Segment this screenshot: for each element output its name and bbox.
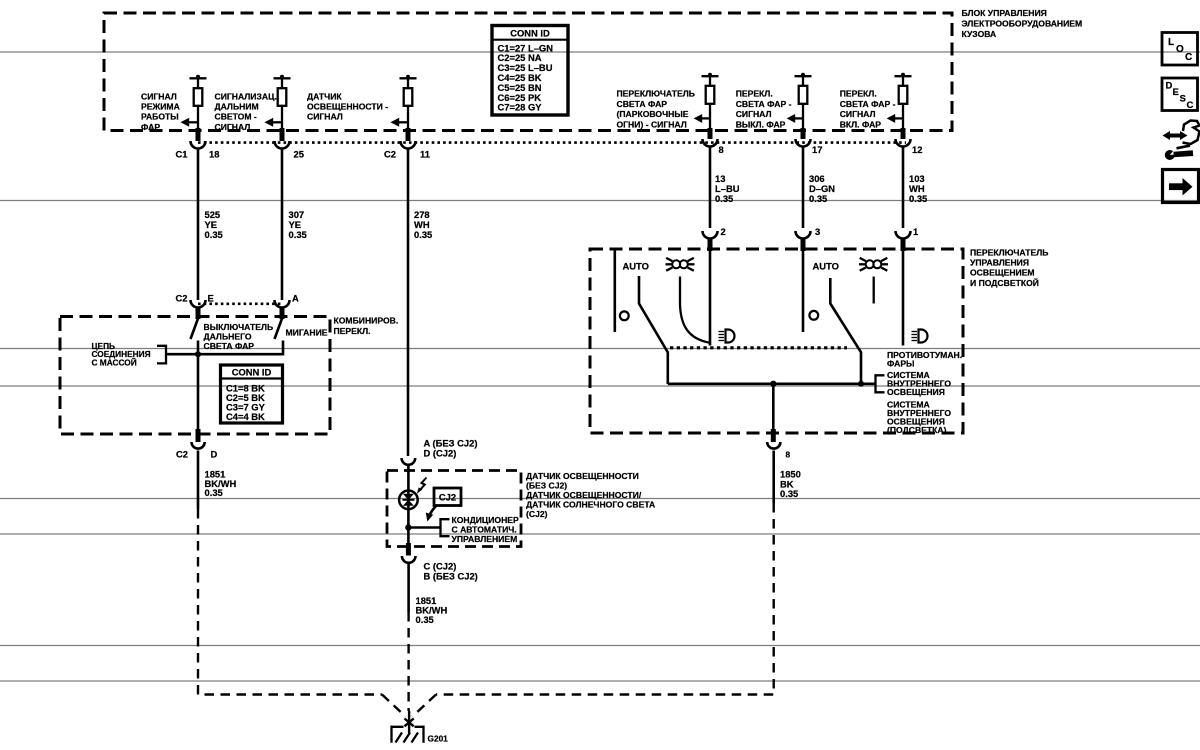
connector stub 25 — [280, 128, 285, 141]
wire 1851 dashed (center) — [407, 612, 409, 711]
wire 1851 BK/WH solid (center) — [407, 563, 410, 613]
svg-text:C: C — [1185, 52, 1192, 63]
svg-text:0.35: 0.35 — [205, 229, 223, 240]
connector id table (BCM) — [492, 26, 568, 116]
svg-text:КОНДИЦИОНЕР: КОНДИЦИОНЕР — [452, 515, 520, 525]
combination switch label — [334, 316, 399, 336]
svg-text:ДАТЧИК ОСВЕЩЕННОСТИ/: ДАТЧИК ОСВЕЩЕННОСТИ/ — [526, 490, 642, 500]
svg-text:B (БЕЗ CJ2): B (БЕЗ CJ2) — [424, 570, 478, 581]
svg-text:D: D — [211, 448, 218, 459]
connector arc C1-18 — [191, 141, 206, 149]
wire label 1851 BK/WH 0.35 (center) — [416, 595, 448, 625]
body control module label — [962, 8, 1083, 39]
wire label 1850 BK 0.35 — [780, 469, 801, 500]
headlamp symbol left — [719, 330, 735, 343]
svg-text:O: O — [1176, 44, 1184, 55]
wire label 278 WH 0.35 — [414, 209, 432, 240]
AUTO contact bar right (pin3 wire) — [802, 251, 805, 333]
connector arc pin3 — [796, 231, 811, 239]
svg-text:ВКЛ. ФАР: ВКЛ. ФАР — [840, 119, 882, 129]
svg-text:0.35: 0.35 — [416, 614, 434, 625]
svg-text:КУЗОВА: КУЗОВА — [962, 29, 997, 39]
connector stub A — [280, 307, 285, 319]
svg-text:РЕЖИМА: РЕЖИМА — [141, 102, 180, 112]
connector arc 17 — [796, 139, 811, 147]
connector stub E — [196, 307, 201, 319]
wire label 13 L-BU 0.35 — [715, 173, 740, 204]
page rule line 3 — [0, 348, 1200, 350]
connector stub pin2 — [708, 238, 713, 251]
svg-text:C2: C2 — [176, 293, 188, 304]
dashed diagonal to ground left — [382, 695, 406, 717]
junction dot E — [195, 351, 201, 357]
wire label 306 D-GN 0.35 — [809, 173, 835, 204]
DESC nav box — [1162, 78, 1198, 111]
wire 1850 BK dashed — [436, 503, 774, 695]
page rule line 1 — [0, 51, 1200, 53]
svg-text:AUTO: AUTO — [813, 261, 839, 272]
connector arc 25 — [275, 141, 290, 149]
svg-text:(ПОДСВЕТКА): (ПОДСВЕТКА) — [887, 425, 947, 435]
svg-text:D: D — [1166, 81, 1173, 92]
pin labels C/B below sensor — [424, 561, 478, 582]
next page arrow box — [1163, 170, 1199, 203]
resistor R1 (headlamp mode signal) — [190, 75, 207, 131]
AUTO contact bar left — [613, 251, 616, 333]
wire 306 D-GN — [802, 148, 805, 229]
CJ2 tag box — [434, 488, 461, 506]
svg-text:ЭЛЕКТРООБОРУДОВАНИЕМ: ЭЛЕКТРООБОРУДОВАНИЕМ — [962, 18, 1083, 28]
svg-text:УПРАВЛЕНИЕМ: УПРАВЛЕНИЕМ — [452, 534, 518, 544]
connector arc pin2 — [703, 231, 718, 239]
resistor R6 (headlamp switch on signal) — [895, 73, 912, 131]
label: headlamp switch on signal — [840, 89, 896, 130]
parking lamp stem and curve left — [680, 277, 710, 343]
parking lamp symbol left — [666, 258, 695, 271]
connector stub pin3 — [801, 238, 806, 251]
signal arrow A6 — [887, 114, 903, 123]
svg-text:ПЕРЕКЛЮЧАТЕЛЬ: ПЕРЕКЛЮЧАТЕЛЬ — [617, 89, 695, 99]
svg-text:1: 1 — [913, 226, 918, 237]
connector dotted line E-A — [198, 302, 282, 305]
svg-text:БЛОК УПРАВЛЕНИЯ: БЛОК УПРАВЛЕНИЯ — [962, 8, 1047, 18]
ground circuit bracket — [157, 346, 166, 364]
svg-text:КОМБИНИРОВ.: КОМБИНИРОВ. — [334, 316, 399, 326]
page rule line 5 — [0, 498, 1200, 500]
svg-text:СИГНАЛ: СИГНАЛ — [141, 92, 177, 102]
svg-text:ОГНИ) - СИГНАЛ: ОГНИ) - СИГНАЛ — [617, 119, 687, 129]
light sensor labels right — [526, 471, 655, 519]
svg-text:ДАЛЬНЕГО: ДАЛЬНЕГО — [204, 331, 252, 341]
label: light sensor signal — [307, 92, 388, 122]
body control module box U1 — [104, 13, 952, 131]
connector stub C1-18 — [196, 128, 201, 141]
a/c bracket — [441, 519, 450, 536]
svg-text:СИГНАЛ: СИГНАЛ — [307, 112, 343, 122]
LOC nav box — [1162, 33, 1198, 66]
svg-text:УПРАВЛЕНИЯ: УПРАВЛЕНИЯ — [970, 258, 1029, 268]
svg-text:ФАРЫ: ФАРЫ — [887, 359, 914, 369]
connector arc 8 — [703, 139, 718, 147]
connector stub 12 — [901, 128, 906, 139]
svg-text:C: C — [1187, 100, 1194, 111]
headlamp symbol right — [912, 330, 928, 343]
svg-text:СВЕТА ФАР -: СВЕТА ФАР - — [840, 99, 896, 109]
connector stub sensor bottom — [406, 543, 411, 556]
svg-text:8: 8 — [786, 450, 791, 460]
svg-text:11: 11 — [420, 149, 430, 160]
svg-text:СВЕТОМ -: СВЕТОМ - — [215, 112, 257, 122]
CJ2 arrow — [426, 506, 437, 522]
svg-text:РАБОТЫ: РАБОТЫ — [141, 112, 179, 122]
page rule line 7 — [0, 645, 1200, 647]
wire 103 WH — [902, 148, 905, 229]
switch output wire horizontal — [668, 382, 876, 385]
svg-text:ДАТЧИК ОСВЕЩЕННОСТИ: ДАТЧИК ОСВЕЩЕННОСТИ — [526, 471, 639, 481]
svg-text:С АВТОМАТИЧ.: С АВТОМАТИЧ. — [452, 524, 517, 534]
connector stub 17 — [801, 128, 806, 139]
page rule line 4 — [0, 385, 1200, 387]
svg-text:12: 12 — [912, 144, 922, 155]
wire into sensor box — [407, 464, 410, 491]
label: headlamp switch off signal — [736, 89, 792, 130]
svg-text:ВЫКЛ. ФАР: ВЫКЛ. ФАР — [736, 119, 786, 129]
wire 1850 BK solid — [772, 451, 775, 504]
svg-text:СИГНАЛ: СИГНАЛ — [215, 122, 251, 132]
svg-text:ОСВЕЩЕНИЯ: ОСВЕЩЕНИЯ — [887, 387, 945, 397]
connector arc pin8 — [767, 442, 780, 449]
svg-text:CONN ID: CONN ID — [232, 367, 272, 378]
connector stub pin1 — [901, 238, 906, 251]
high beam switch label — [204, 322, 274, 351]
label: high beam flash signal — [215, 92, 277, 132]
svg-text:(ПАРКОВОЧНЫЕ: (ПАРКОВОЧНЫЕ — [617, 109, 689, 119]
signal arrow A2 — [264, 118, 282, 127]
svg-text:G201: G201 — [428, 734, 449, 744]
svg-text:ДАЛЬНИМ: ДАЛЬНИМ — [215, 102, 259, 112]
svg-text:СВЕТА ФАР: СВЕТА ФАР — [204, 341, 255, 351]
signal arrow A5 — [787, 114, 803, 123]
wire 13 L-BU — [709, 148, 712, 229]
junction dot J1 — [770, 381, 776, 387]
wire 307 YE — [281, 150, 284, 301]
svg-text:C1: C1 — [176, 149, 188, 160]
resistor R4 (headlamp switch parking lamps) — [702, 73, 719, 131]
svg-text:СВЕТА ФАР -: СВЕТА ФАР - — [736, 99, 792, 109]
connector arc C2-11 — [401, 141, 416, 149]
svg-text:(БЕЗ CJ2): (БЕЗ CJ2) — [526, 480, 567, 490]
wire label 525 YE 0.35 — [205, 209, 223, 240]
svg-text:ВЫКЛЮЧАТЕЛЬ: ВЫКЛЮЧАТЕЛЬ — [204, 322, 274, 332]
wire 1851 BK/WH solid (left) — [197, 451, 200, 510]
resistor R3 (ambient light sensor signal) — [400, 75, 417, 131]
ground circuit wire — [166, 341, 283, 355]
connector stub 8 — [708, 128, 713, 139]
resistor R5 (headlamp switch off signal) — [795, 73, 812, 131]
connector arc E — [191, 300, 206, 308]
combination switch box S1 — [60, 317, 330, 435]
switch blade left — [639, 276, 668, 384]
splice star S301 — [405, 711, 414, 733]
svg-text:ОСВЕЩЕНИЕМ: ОСВЕЩЕНИЕМ — [970, 268, 1035, 278]
switch internal dotted line — [670, 346, 847, 349]
light sensor box — [387, 471, 521, 547]
connector id table (combination switch) — [221, 365, 283, 423]
label: headlamp mode signal — [141, 92, 180, 132]
svg-text:ДАТЧИК: ДАТЧИК — [307, 92, 342, 102]
svg-text:25: 25 — [294, 149, 304, 160]
wire E lower — [197, 354, 200, 431]
svg-text:0.35: 0.35 — [289, 229, 307, 240]
signal arrow A1 — [180, 118, 198, 127]
photo sensor D1 — [399, 491, 418, 510]
lightning arrow into sensor — [417, 478, 427, 494]
svg-text:СИГНАЛИЗАЦ.: СИГНАЛИЗАЦ. — [215, 92, 277, 102]
label: headlamp switch parking lamps signal — [617, 89, 695, 130]
junction dot sensor — [405, 524, 411, 530]
light control switch box S2 — [590, 249, 963, 433]
connector arc 12 — [896, 139, 911, 147]
connector arc sensor top — [402, 458, 416, 465]
svg-text:E: E — [1173, 87, 1179, 98]
signal arrow A4 — [694, 114, 710, 123]
wire to a/c bracket — [408, 526, 440, 529]
svg-text:МИГАНИЕ: МИГАНИЕ — [286, 327, 328, 337]
output bracket — [876, 375, 885, 392]
connector stub D — [196, 429, 201, 442]
wire label 1851 BK/WH 0.35 (left) — [205, 469, 237, 499]
svg-text:0.35: 0.35 — [414, 229, 432, 240]
svg-text:18: 18 — [209, 149, 219, 160]
connector arc D — [192, 442, 205, 449]
wire pin1 inside box — [902, 251, 905, 346]
high beam lower contact — [197, 341, 200, 355]
svg-text:ФАР: ФАР — [141, 122, 160, 132]
dashed diagonal to ground right — [413, 695, 437, 717]
svg-text:C4=4 BK: C4=4 BK — [226, 411, 265, 422]
high beam switch blade — [191, 319, 199, 340]
svg-text:3: 3 — [815, 226, 820, 237]
off contact circle right — [809, 311, 818, 320]
svg-text:0.35: 0.35 — [715, 193, 733, 204]
svg-text:ПЕРЕКЛ.: ПЕРЕКЛ. — [840, 89, 877, 99]
wire pin2 inside box — [709, 251, 712, 346]
page rule line 6 — [0, 533, 1200, 535]
svg-text:CJ2: CJ2 — [439, 492, 456, 503]
svg-text:0.35: 0.35 — [205, 487, 223, 498]
ground G201 — [392, 726, 424, 743]
svg-text:A: A — [292, 293, 299, 304]
svg-text:C7=28 GY: C7=28 GY — [498, 102, 543, 113]
svg-text:2: 2 — [721, 226, 726, 237]
svg-text:C2: C2 — [176, 448, 188, 459]
signal arrow A3 — [390, 118, 408, 127]
wire label 103 WH 0.35 — [909, 173, 927, 204]
svg-text:ПЕРЕКЛ.: ПЕРЕКЛ. — [736, 89, 773, 99]
svg-text:0.35: 0.35 — [780, 488, 798, 499]
resistor R2 (high beam signal) — [274, 75, 291, 131]
label fog lamps / interior lighting — [887, 350, 962, 435]
wire 278 WH — [407, 150, 410, 457]
wire label 307 YE 0.35 — [289, 209, 307, 240]
page rule line 2 — [0, 200, 1200, 202]
wire sensor lower — [407, 491, 410, 545]
svg-text:17: 17 — [812, 144, 822, 155]
pin labels A/D above sensor — [424, 438, 478, 459]
off contact circle left — [620, 311, 629, 320]
svg-text:СВЕТА ФАР: СВЕТА ФАР — [617, 99, 668, 109]
a/c label — [452, 515, 520, 544]
svg-text:СИГНАЛ: СИГНАЛ — [736, 109, 772, 119]
connector arc pin1 — [896, 231, 911, 239]
connector stub C2-11 — [406, 128, 411, 141]
wire 525 YE — [197, 150, 200, 301]
svg-text:C2: C2 — [384, 149, 396, 160]
svg-text:С МАССОЙ: С МАССОЙ — [92, 357, 137, 368]
svg-text:ОСВЕЩЕННОСТИ -: ОСВЕЩЕННОСТИ - — [307, 102, 388, 112]
svg-text:CONN ID: CONN ID — [510, 28, 550, 39]
parking lamp symbol right — [859, 258, 888, 271]
svg-text:S: S — [1180, 94, 1186, 105]
svg-text:E: E — [208, 293, 214, 304]
flash switch blade — [275, 319, 283, 340]
svg-text:ПЕРЕКЛЮЧАТЕЛЬ: ПЕРЕКЛЮЧАТЕЛЬ — [970, 247, 1048, 257]
svg-text:L: L — [1168, 37, 1174, 48]
connector arc A — [275, 300, 290, 308]
connector stub pin8 — [771, 429, 776, 442]
wire to pin8 of switch — [772, 384, 775, 431]
svg-text:0.35: 0.35 — [909, 193, 927, 204]
switch blade right — [830, 278, 861, 384]
svg-text:0.35: 0.35 — [809, 193, 827, 204]
svg-text:D (CJ2): D (CJ2) — [424, 447, 457, 458]
tools icon — [1163, 121, 1200, 161]
light control switch label — [970, 247, 1048, 288]
harness connector dotted line (BCM) — [198, 141, 906, 144]
svg-text:ПЕРЕКЛ.: ПЕРЕКЛ. — [334, 326, 371, 336]
wire 1851 dashed (left) — [198, 509, 382, 695]
ground circuit label — [92, 341, 151, 368]
svg-text:И ПОДСВЕТКОЙ: И ПОДСВЕТКОЙ — [970, 277, 1039, 288]
svg-text:(CJ2): (CJ2) — [526, 509, 548, 519]
svg-text:8: 8 — [719, 144, 724, 155]
connector arc sensor bottom — [402, 556, 416, 563]
parking lamp stem right — [873, 277, 875, 304]
page rule line 8 — [0, 680, 1200, 682]
svg-text:AUTO: AUTO — [623, 261, 649, 272]
junction dot J2 — [858, 381, 864, 387]
svg-text:ДАТЧИК СОЛНЕЧНОГО СВЕТА: ДАТЧИК СОЛНЕЧНОГО СВЕТА — [526, 499, 655, 509]
svg-text:СИГНАЛ: СИГНАЛ — [840, 109, 876, 119]
